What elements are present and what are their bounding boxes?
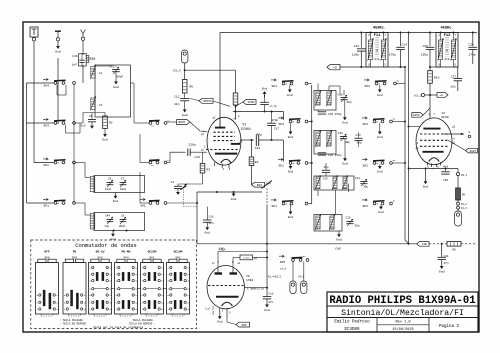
- ground module 1: [115, 193, 117, 195]
- wire V1 grid bus x283.5: [283, 112, 285, 121]
- wire bus to V2 g1: [409, 126, 420, 128]
- svg-text:Gnd: Gnd: [217, 320, 223, 324]
- svg-text:C15 150p: C15 150p: [328, 113, 342, 116]
- svg-text:17B4: 17B4: [246, 279, 253, 282]
- svg-text:Gnd: Gnd: [288, 215, 294, 219]
- conmutador de ondas dashed box: [31, 240, 197, 329]
- coil module M2 L12 L13 box: [314, 131, 336, 155]
- svg-text:R2: R2: [109, 122, 113, 125]
- svg-text:Gnd: Gnd: [445, 57, 450, 61]
- coil L2: [90, 177, 95, 192]
- svg-text:1nF: 1nF: [72, 63, 78, 66]
- wire gnd stub down: [57, 58, 59, 123]
- wire y111.5: [233, 111, 284, 113]
- tube V6 cathode: [216, 296, 239, 298]
- svg-text:F11: F11: [374, 34, 382, 38]
- svg-text:458Kc.: 458Kc.: [441, 26, 454, 30]
- svg-text:L10: L10: [316, 103, 321, 106]
- svg-text:10pF: 10pF: [120, 188, 127, 191]
- svg-text:K3,1: K3,1: [414, 95, 421, 98]
- capacitor C24 170p: [400, 33, 402, 47]
- svg-text:L13: L13: [327, 144, 332, 147]
- svg-text:Gnd: Gnd: [205, 231, 211, 235]
- conmutador bracket SK4: [120, 315, 132, 317]
- svg-text:1 amarillo: 1 amarillo: [247, 286, 264, 290]
- svg-text:L11: L11: [327, 103, 332, 106]
- switch SK4 mid-right: [364, 79, 369, 81]
- svg-text:C19: C19: [338, 132, 343, 135]
- ground under C52: [115, 80, 117, 82]
- svg-text:L19: L19: [329, 227, 334, 230]
- svg-text:SK1: SK1: [43, 204, 49, 207]
- svg-text:SK4: SK4: [123, 256, 128, 259]
- net flag 6A07: [466, 148, 478, 153]
- net flag 1K5W: [236, 102, 244, 106]
- svg-text:C46: C46: [72, 55, 78, 58]
- svg-text:110p: 110p: [352, 53, 359, 56]
- svg-text:K1,4: K1,4: [461, 207, 467, 210]
- ground module M1: [344, 100, 346, 116]
- svg-text:L4: L4: [99, 72, 103, 75]
- svg-text:R3: R3: [207, 169, 211, 172]
- svg-text:C23: C23: [354, 45, 360, 48]
- svg-text:R30: R30: [90, 57, 96, 61]
- wire SK4 linkage dashed: [266, 189, 268, 207]
- coil module L4 L5 box: [95, 65, 131, 117]
- svg-text:16pF: 16pF: [105, 188, 112, 191]
- svg-text:Gnd: Gnd: [375, 57, 380, 61]
- ground under V6: [219, 315, 221, 316]
- svg-text:C11: C11: [268, 293, 273, 296]
- wire bus x220 to V1 anode: [219, 33, 221, 127]
- svg-text:80pF: 80pF: [119, 225, 126, 228]
- svg-text:SK4: SK4: [271, 85, 277, 88]
- ground under C11 mid: [206, 226, 208, 227]
- wire F11 S to bus: [384, 66, 406, 68]
- coil L16: [343, 177, 347, 189]
- svg-text:SK4: SK4: [43, 84, 49, 87]
- tube V1 anode bar: [215, 127, 225, 129]
- switch SK4 far-left: [43, 78, 48, 80]
- svg-text:C10: C10: [195, 156, 201, 159]
- svg-text:Gnd: Gnd: [264, 308, 270, 312]
- svg-text:Rev 1.0: Rev 1.0: [395, 320, 410, 324]
- antenna J1: [30, 27, 38, 37]
- wire V6 grid to C11: [266, 244, 268, 296]
- svg-text:6A07: 6A07: [470, 150, 477, 153]
- wire left bus x26.5: [26, 83, 28, 203]
- svg-text:SK3: SK3: [362, 123, 368, 126]
- svg-text:Gnd: Gnd: [287, 93, 293, 97]
- svg-text:Gnd: Gnd: [342, 162, 348, 166]
- wire CAG dashed: [429, 243, 447, 245]
- svg-text:K3,3: K3,3: [461, 203, 467, 206]
- ground under C9: [91, 125, 93, 126]
- tube V1 triode grid dashed: [206, 149, 239, 151]
- resistor R3: [202, 152, 204, 163]
- ground module M4: [338, 231, 340, 233]
- svg-text:Vista por la cara de soldadura: Vista por la cara de soldadura: [93, 325, 144, 329]
- svg-text:C3: C3: [108, 178, 112, 181]
- resistor R2: [103, 116, 108, 129]
- svg-text:K1,4+K3,5: K1,4+K3,5: [268, 275, 281, 278]
- switch contacts mid column row SK3: [149, 122, 152, 125]
- svg-text:C7: C7: [121, 178, 125, 181]
- resistor R8: [251, 140, 253, 157]
- conmutador bracket SK6: [41, 315, 53, 317]
- svg-text:BN25: BN25: [178, 121, 185, 124]
- coil L17: [316, 216, 320, 229]
- switch SK2 mid-right: [362, 158, 367, 160]
- wire C9 R2 top: [76, 122, 84, 124]
- svg-text:marron: marron: [212, 305, 215, 314]
- capacitor C31 47n: [441, 244, 443, 257]
- tube V6 envelope: [207, 266, 244, 309]
- svg-text:OC19M: OC19M: [174, 251, 183, 254]
- wire bus x405 secondary down: [404, 67, 406, 240]
- svg-text:Gnd: Gnd: [378, 210, 384, 214]
- switch SK1 mid-left: [271, 199, 276, 201]
- node K3,1 junction: [429, 94, 431, 96]
- svg-text:R10: R10: [434, 77, 440, 80]
- wire antenna down: [33, 41, 35, 163]
- node K3,3: [184, 63, 186, 80]
- svg-text:C14: C14: [323, 177, 328, 180]
- svg-text:3n3: 3n3: [80, 125, 85, 128]
- trimmer linkage dotted: [180, 184, 187, 190]
- resistor R8 V2: [457, 176, 459, 188]
- capacitor C16 150p: [318, 152, 326, 154]
- wire sk contact links: [73, 85, 75, 204]
- tube V1 cathode: [215, 153, 237, 155]
- coil L10: [316, 92, 320, 105]
- svg-text:C24: C24: [402, 44, 408, 47]
- ground under C31: [441, 264, 443, 266]
- switch contacts mid column row SK2: [149, 161, 152, 164]
- wire C46 to SK4 row: [82, 66, 84, 83]
- wire V2 cathode row: [409, 168, 458, 170]
- svg-text:V1: V1: [242, 122, 246, 126]
- tube V2 anode bar: [423, 128, 440, 130]
- connector pin K3,3: [182, 50, 188, 63]
- svg-text:V2: V2: [442, 112, 446, 115]
- coil L12: [316, 132, 320, 146]
- capacitor C10 220p: [167, 162, 170, 164]
- svg-text:CAG: CAG: [335, 247, 341, 250]
- conmutador bracket SK5: [69, 315, 81, 317]
- svg-text:SK4: SK4: [364, 85, 370, 88]
- svg-text:Gnd: Gnd: [342, 121, 348, 125]
- svg-text:170p: 170p: [389, 53, 396, 56]
- svg-text:Gnd: Gnd: [439, 269, 445, 273]
- svg-text:Gnd: Gnd: [377, 93, 383, 97]
- svg-text:Gnd: Gnd: [182, 113, 188, 117]
- svg-text:C8: C8: [121, 215, 125, 218]
- svg-text:OO-LW: OO-LW: [96, 251, 105, 254]
- svg-text:C26: C26: [469, 44, 475, 47]
- svg-text:220p: 220p: [188, 144, 195, 147]
- svg-text:50pF: 50pF: [117, 76, 124, 79]
- wire heater to V6: [218, 251, 267, 253]
- svg-text:47n: 47n: [268, 301, 273, 304]
- resistor R4: [235, 70, 237, 93]
- svg-text:RADIO PHILIPS B1X99A-01: RADIO PHILIPS B1X99A-01: [329, 295, 475, 307]
- svg-text:L16: L16: [342, 187, 347, 190]
- svg-text:FILA: FILA: [219, 248, 226, 251]
- svg-text:C43: C43: [356, 134, 361, 137]
- net flag B2A: [252, 182, 265, 187]
- resistor R10: [428, 71, 433, 84]
- svg-text:470p: 470p: [272, 119, 279, 122]
- tube V2 grids: [420, 133, 448, 135]
- svg-text:Gnd: Gnd: [55, 49, 61, 53]
- wire mid col row connections: [33, 162, 35, 164]
- svg-text:40p: 40p: [345, 141, 350, 144]
- coil L13: [327, 132, 331, 146]
- coil module M4 L17 L19 box: [314, 215, 342, 232]
- wire heater top: [197, 191, 262, 193]
- svg-text:Gnd: Gnd: [110, 237, 116, 241]
- svg-text:SK1: SK1: [149, 256, 154, 259]
- svg-text:L15: L15: [332, 187, 337, 190]
- switch SK1 far-left: [43, 198, 48, 200]
- svg-text:A250: A250: [413, 114, 420, 117]
- svg-text:Gnd: Gnd: [113, 85, 119, 89]
- wire mid-left bus x311.7: [311, 85, 313, 204]
- wire CAG bus: [197, 243, 417, 245]
- svg-text:R8: R8: [255, 161, 259, 164]
- svg-text:R9: R9: [452, 248, 456, 251]
- switch SK3 mid-left: [278, 117, 283, 119]
- net flag SUP: [226, 318, 228, 322]
- svg-text:SK5: SK5: [280, 261, 286, 264]
- capacitor C12 10n: [184, 93, 186, 98]
- svg-text:30p: 30p: [363, 185, 368, 188]
- svg-text:Gnd: Gnd: [113, 199, 119, 203]
- wire SK1 row to bus: [167, 202, 197, 204]
- wire left bus x34 joins SK2: [34, 162, 55, 164]
- svg-text:SK2: SK2: [175, 256, 180, 259]
- svg-text:47p: 47p: [257, 134, 263, 137]
- svg-text:458Kc.: 458Kc.: [373, 26, 386, 30]
- ground module M2: [344, 139, 346, 157]
- svg-text:ro,a: ro,a: [280, 268, 287, 271]
- tube V2 cathode: [422, 151, 443, 153]
- svg-text:17DK3: 17DK3: [243, 257, 250, 260]
- tube V1 hexode anode bar: [231, 143, 240, 145]
- svg-text:Sintonia/OL/Mezcladora/FI: Sintonia/OL/Mezcladora/FI: [341, 308, 464, 318]
- svg-text:SK6: SK6: [44, 256, 49, 259]
- wire CAG dashed right: [461, 243, 476, 245]
- tube V2 pins bottom: [427, 162, 429, 166]
- ground SK2 mid-right: [379, 165, 381, 166]
- svg-text:195p: 195p: [421, 53, 428, 56]
- svg-text:Gnd: Gnd: [288, 135, 294, 139]
- ground under C11 V6: [266, 303, 268, 305]
- svg-text:170p: 170p: [469, 53, 476, 56]
- antenna 2 symbol: [81, 30, 86, 38]
- wire left bus stubs: [27, 122, 55, 124]
- coil module M3 L14 L15 L16 box: [314, 176, 354, 190]
- svg-text:SK2: SK2: [43, 164, 49, 167]
- svg-text:PU: PU: [73, 251, 77, 254]
- node K3,1 bottom: [457, 169, 459, 173]
- svg-text:+2: +2: [333, 65, 337, 69]
- svg-text:10n: 10n: [450, 85, 456, 88]
- svg-text:14p: 14p: [105, 225, 110, 228]
- ground top-left: [55, 30, 61, 32]
- ground on heater row: [233, 192, 235, 194]
- svg-text:L17: L17: [315, 227, 320, 230]
- wire B+ top rail: [220, 32, 477, 34]
- svg-text:SK3: SK3: [43, 124, 49, 127]
- svg-text:SK3: SK3: [278, 123, 284, 126]
- svg-text:C20: C20: [346, 217, 351, 220]
- svg-text:Gnd: Gnd: [102, 137, 108, 141]
- wire module M3 bottom drops: [334, 190, 336, 215]
- tube V6 anode bars: [215, 272, 223, 274]
- capacitor 2,7p: [264, 95, 266, 102]
- wire F12 Q stub: [430, 66, 441, 68]
- svg-text:V6: V6: [246, 275, 250, 278]
- coil L15: [333, 177, 337, 189]
- svg-text:Gnd: Gnd: [336, 238, 342, 242]
- conmutador bracket SK2: [172, 315, 184, 317]
- svg-text:Gnd: Gnd: [288, 169, 294, 173]
- ground under C33: [177, 191, 179, 192]
- svg-text:30p: 30p: [347, 101, 352, 104]
- net flag A250: [412, 113, 424, 118]
- svg-text:C44: C44: [105, 215, 110, 218]
- node R4 junction: [235, 105, 237, 107]
- svg-text:47n: 47n: [444, 262, 449, 265]
- net flag CAG: [417, 242, 430, 247]
- svg-text:Pagina 2: Pagina 2: [439, 324, 460, 329]
- svg-text:C3: C3: [171, 181, 175, 184]
- svg-text:C13: C13: [255, 147, 261, 150]
- svg-text:l,pl: l,pl: [205, 307, 212, 310]
- svg-text:Emilio Pedroso: Emilio Pedroso: [334, 320, 370, 325]
- coil L19: [330, 216, 334, 229]
- svg-text:Gnd: Gnd: [262, 87, 268, 91]
- osc coil module box 2: [94, 213, 145, 231]
- svg-text:CAG: CAG: [422, 243, 427, 246]
- svg-text:Gnd: Gnd: [231, 197, 237, 201]
- antenna coil module box 1: [94, 176, 145, 193]
- capacitor C23 110p: [360, 33, 362, 48]
- capacitor C15 150p: [317, 110, 319, 112]
- capacitor C25 195p: [429, 33, 431, 47]
- resistor R6: [182, 80, 187, 94]
- svg-text:2,7p: 2,7p: [270, 105, 277, 108]
- svg-text:EF89: EF89: [442, 116, 449, 119]
- wire left vertical to CAG: [196, 192, 198, 244]
- connector pin bottom right: [457, 209, 459, 211]
- tube V1 ECH81 envelope: [207, 117, 241, 165]
- svg-text:SP250: SP250: [203, 100, 212, 103]
- wire V2 anode out arrow: [444, 133, 464, 135]
- svg-text:15/06/2025: 15/06/2025: [392, 327, 414, 332]
- wire V2 g2 to 6A07: [448, 140, 466, 150]
- coil module M1 L10 L11 box: [314, 91, 336, 111]
- tube V6 pins bottom: [219, 308, 221, 316]
- svg-text:B2A: B2A: [257, 184, 262, 187]
- svg-text:SK5: SK5: [362, 205, 368, 208]
- svg-text:SK1: SK1: [271, 205, 277, 208]
- ground module 2: [113, 230, 115, 232]
- net flag SP250: [190, 99, 199, 101]
- svg-text:R8: R8: [462, 194, 466, 197]
- svg-text:R6: R6: [190, 86, 194, 89]
- svg-text:SK2: SK2: [278, 164, 284, 167]
- wire K3,1 down to V2: [429, 95, 431, 119]
- switch SK3 far-left: [43, 118, 48, 120]
- svg-text:C16 150p: C16 150p: [328, 154, 342, 157]
- coil L11: [327, 92, 331, 105]
- svg-text:SK5: SK5: [72, 256, 77, 259]
- switch contacts mid column row SK1: [140, 198, 145, 200]
- wire bus x408.6 rail to CAG: [408, 33, 410, 244]
- switch SK4 mid-left: [271, 79, 276, 81]
- nodes K3,3 K1,4: [457, 202, 460, 205]
- svg-text:Gnd: Gnd: [423, 185, 429, 189]
- coil L14: [316, 177, 320, 189]
- switch SK4 diagonal: [262, 181, 273, 189]
- net flag BN25: [177, 120, 191, 125]
- svg-text:C12: C12: [174, 96, 180, 99]
- coil L5: [91, 98, 95, 110]
- IF transformer F11: [366, 33, 388, 68]
- svg-text:39p: 39p: [357, 142, 362, 145]
- svg-text:C21: C21: [355, 177, 360, 180]
- tube V6 grid dashed: [208, 285, 244, 287]
- capacitor C33: [178, 183, 203, 185]
- tube V2 EF89 envelope: [416, 118, 452, 165]
- capacitor C11 47n mid: [206, 207, 208, 220]
- svg-text:Gnd: Gnd: [377, 169, 383, 173]
- svg-text:K3,3: K3,3: [173, 70, 180, 73]
- wire V1 hexode anode to C13: [239, 140, 242, 144]
- title block: [327, 292, 478, 332]
- ground under C12: [184, 108, 186, 110]
- wire F12 S to C27: [454, 66, 458, 68]
- ground SK5 mid-right: [380, 205, 382, 206]
- ground SK1 mid-left: [290, 205, 292, 211]
- svg-text:SK2: SK2: [362, 164, 368, 167]
- conmutador bracket SK1: [146, 315, 158, 317]
- svg-text:47n: 47n: [209, 222, 214, 225]
- net flag +2 left: [327, 65, 340, 70]
- coil L3: [90, 214, 95, 230]
- wire module M1 top: [317, 84, 319, 91]
- svg-text:L14: L14: [315, 187, 320, 190]
- net flag +2 right: [437, 93, 448, 98]
- svg-text:SUP: SUP: [242, 324, 247, 327]
- svg-text:SK1: SK1: [140, 205, 146, 208]
- svg-text:EC4D09: EC4D09: [344, 328, 360, 332]
- svg-text:L12: L12: [316, 144, 321, 147]
- svg-text:ECH81: ECH81: [241, 127, 251, 131]
- svg-text:↓ TECLA EN REPOSO: ↓ TECLA EN REPOSO: [60, 323, 87, 326]
- switch SK2 mid-left: [278, 158, 283, 160]
- wire ant2 down: [82, 41, 84, 53]
- svg-text:F12: F12: [444, 34, 452, 38]
- wire SK1 row to module 2: [76, 202, 86, 204]
- svg-text:OC25M: OC25M: [148, 251, 157, 254]
- svg-text:C27: C27: [451, 76, 457, 79]
- switch SK5 mid-right: [362, 199, 367, 201]
- svg-text:L5: L5: [99, 104, 103, 107]
